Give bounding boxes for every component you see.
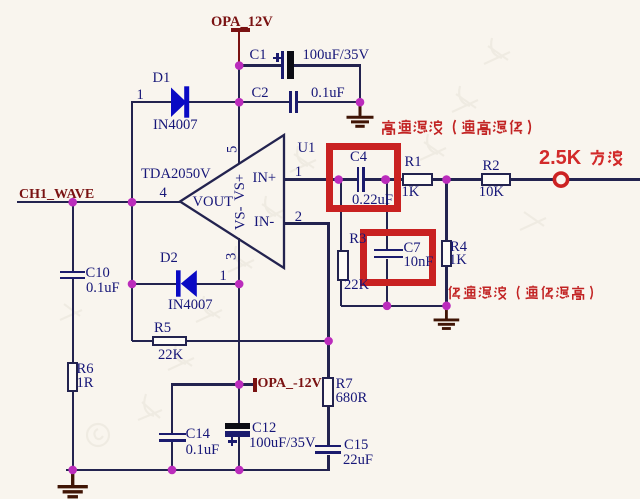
svg-text:2.5K: 2.5K [539, 147, 582, 169]
